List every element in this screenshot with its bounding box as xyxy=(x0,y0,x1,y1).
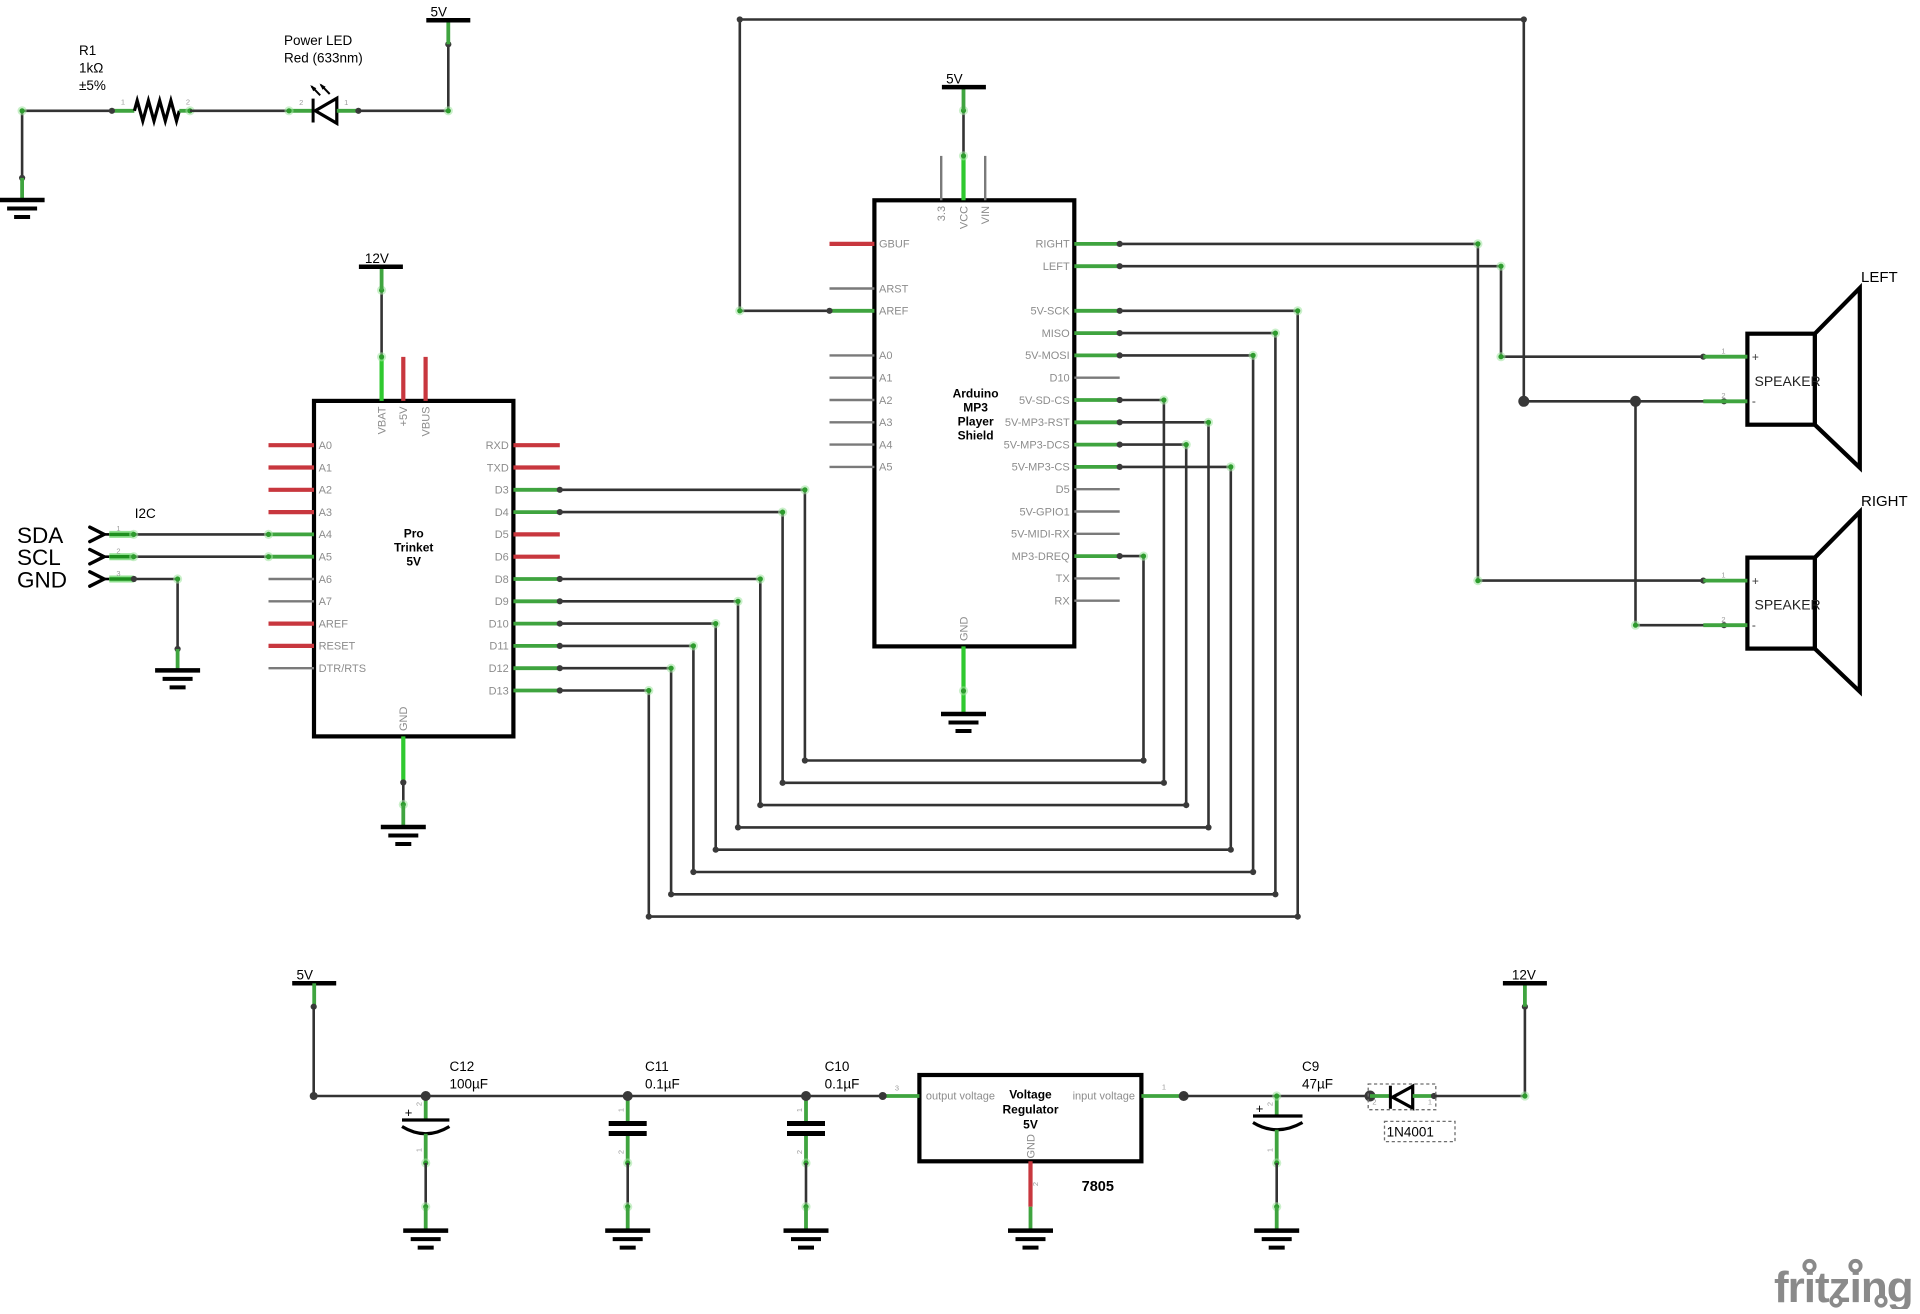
svg-text:1: 1 xyxy=(1162,1083,1166,1092)
svg-text:1N4001: 1N4001 xyxy=(1387,1124,1434,1139)
svg-text:7805: 7805 xyxy=(1082,1179,1114,1195)
svg-text:+: + xyxy=(1752,574,1759,588)
svg-text:D13: D13 xyxy=(489,685,509,697)
svg-text:LEFT: LEFT xyxy=(1043,261,1070,273)
svg-text:A3: A3 xyxy=(879,417,892,429)
svg-text:TXD: TXD xyxy=(487,462,509,474)
svg-text:1: 1 xyxy=(116,524,120,533)
svg-text:D10: D10 xyxy=(1050,373,1070,385)
svg-text:GBUF: GBUF xyxy=(879,239,910,251)
svg-text:MISO: MISO xyxy=(1042,328,1071,340)
svg-text:1: 1 xyxy=(415,1148,424,1152)
svg-text:A7: A7 xyxy=(319,596,332,608)
svg-text:D4: D4 xyxy=(495,507,509,519)
svg-text:C11: C11 xyxy=(645,1059,669,1074)
svg-text:A5: A5 xyxy=(879,462,892,474)
svg-text:A4: A4 xyxy=(319,529,332,541)
svg-text:-: - xyxy=(1752,394,1756,408)
svg-text:VIN: VIN xyxy=(980,206,992,224)
svg-text:RIGHT: RIGHT xyxy=(1035,239,1070,251)
svg-text:1: 1 xyxy=(1721,570,1725,579)
svg-text:AREF: AREF xyxy=(879,306,909,318)
svg-text:3: 3 xyxy=(116,569,120,578)
svg-text:GND: GND xyxy=(1025,1134,1037,1159)
svg-text:1: 1 xyxy=(1428,1098,1432,1107)
svg-text:SCL: SCL xyxy=(17,545,61,570)
svg-text:SPEAKER: SPEAKER xyxy=(1755,597,1821,613)
svg-text:A4: A4 xyxy=(879,439,892,451)
svg-text:+: + xyxy=(1256,1101,1264,1116)
svg-text:2: 2 xyxy=(1721,615,1725,624)
svg-text:Shield: Shield xyxy=(958,429,994,443)
svg-text:Regulator: Regulator xyxy=(1002,1103,1058,1117)
svg-text:D6: D6 xyxy=(495,552,509,564)
svg-text:VBUS: VBUS xyxy=(420,407,432,437)
svg-text:5V: 5V xyxy=(431,5,448,20)
svg-text:A2: A2 xyxy=(319,485,332,497)
svg-text:12V: 12V xyxy=(365,251,389,266)
svg-text:1: 1 xyxy=(344,98,348,107)
svg-text:+: + xyxy=(405,1105,413,1120)
svg-text:5V-MP3-DCS: 5V-MP3-DCS xyxy=(1004,439,1070,451)
svg-text:2: 2 xyxy=(1266,1102,1275,1106)
svg-text:Red (633nm): Red (633nm) xyxy=(284,50,363,65)
svg-text:Player: Player xyxy=(958,415,994,429)
svg-text:A5: A5 xyxy=(319,552,332,564)
svg-text:5V-SCK: 5V-SCK xyxy=(1031,306,1071,318)
svg-text:A1: A1 xyxy=(879,373,892,385)
svg-text:47µF: 47µF xyxy=(1302,1076,1333,1091)
svg-text:2: 2 xyxy=(1031,1182,1040,1186)
svg-text:0.1µF: 0.1µF xyxy=(645,1076,680,1091)
svg-text:2: 2 xyxy=(415,1102,424,1106)
svg-text:GND: GND xyxy=(17,567,67,592)
svg-text:1: 1 xyxy=(617,1108,626,1112)
svg-text:D9: D9 xyxy=(495,596,509,608)
svg-text:5V: 5V xyxy=(1023,1118,1038,1132)
svg-text:TX: TX xyxy=(1056,573,1071,585)
svg-text:D11: D11 xyxy=(489,641,508,653)
svg-text:5V-SD-CS: 5V-SD-CS xyxy=(1019,395,1070,407)
svg-text:2: 2 xyxy=(617,1150,626,1154)
svg-text:VCC: VCC xyxy=(958,206,970,229)
svg-text:A6: A6 xyxy=(319,574,332,586)
svg-text:C12: C12 xyxy=(450,1059,475,1074)
svg-text:0.1µF: 0.1µF xyxy=(825,1076,860,1091)
svg-text:D3: D3 xyxy=(495,485,509,497)
svg-text:1: 1 xyxy=(1266,1148,1275,1152)
svg-text:D5: D5 xyxy=(1056,484,1070,496)
svg-text:2: 2 xyxy=(1721,391,1725,400)
svg-text:D12: D12 xyxy=(489,663,509,675)
svg-text:Pro: Pro xyxy=(404,527,424,541)
svg-text:Trinket: Trinket xyxy=(394,541,433,555)
svg-text:+5V: +5V xyxy=(398,406,410,427)
svg-text:D10: D10 xyxy=(489,618,509,630)
svg-text:1: 1 xyxy=(795,1108,804,1112)
svg-text:2: 2 xyxy=(299,98,303,107)
svg-text:output voltage: output voltage xyxy=(926,1091,995,1103)
svg-text:5V-MP3-CS: 5V-MP3-CS xyxy=(1012,462,1070,474)
svg-text:GND: GND xyxy=(958,617,970,642)
svg-text:-: - xyxy=(1752,618,1756,632)
svg-text:D5: D5 xyxy=(495,529,509,541)
svg-text:D8: D8 xyxy=(495,574,509,586)
svg-text:+: + xyxy=(1752,350,1759,364)
svg-text:5V-MIDI-RX: 5V-MIDI-RX xyxy=(1011,529,1070,541)
svg-text:SPEAKER: SPEAKER xyxy=(1755,373,1821,389)
svg-text:2: 2 xyxy=(116,547,120,556)
svg-text:C10: C10 xyxy=(825,1059,850,1074)
svg-text:VBAT: VBAT xyxy=(376,406,388,434)
svg-text:fritzing: fritzing xyxy=(1774,1263,1913,1309)
svg-text:5V: 5V xyxy=(946,72,963,87)
svg-text:3: 3 xyxy=(895,1084,899,1093)
svg-text:2: 2 xyxy=(795,1150,804,1154)
svg-text:100µF: 100µF xyxy=(450,1076,489,1091)
svg-text:Power LED: Power LED xyxy=(284,33,353,48)
svg-text:A0: A0 xyxy=(879,350,892,362)
svg-text:ARST: ARST xyxy=(879,283,909,295)
svg-text:3.3: 3.3 xyxy=(936,206,948,221)
svg-text:A1: A1 xyxy=(319,462,332,474)
svg-text:A2: A2 xyxy=(879,395,892,407)
svg-text:I2C: I2C xyxy=(135,506,156,521)
svg-text:5V-MOSI: 5V-MOSI xyxy=(1025,350,1070,362)
svg-text:input voltage: input voltage xyxy=(1073,1091,1135,1103)
svg-text:5V: 5V xyxy=(406,555,421,569)
svg-text:2: 2 xyxy=(1372,1098,1376,1107)
svg-text:2: 2 xyxy=(186,98,190,107)
svg-text:LEFT: LEFT xyxy=(1861,269,1898,286)
svg-text:RX: RX xyxy=(1054,596,1070,608)
svg-text:5V: 5V xyxy=(296,968,313,983)
svg-text:12V: 12V xyxy=(1512,968,1536,983)
svg-text:1: 1 xyxy=(1721,346,1725,355)
svg-text:SDA: SDA xyxy=(17,523,63,548)
svg-text:±5%: ±5% xyxy=(79,78,106,93)
svg-text:DTR/RTS: DTR/RTS xyxy=(319,663,366,675)
svg-text:A0: A0 xyxy=(319,440,332,452)
svg-text:C9: C9 xyxy=(1302,1059,1319,1074)
svg-text:A3: A3 xyxy=(319,507,332,519)
svg-text:5V-GPIO1: 5V-GPIO1 xyxy=(1020,506,1070,518)
svg-text:GND: GND xyxy=(398,707,410,732)
svg-text:MP3: MP3 xyxy=(963,401,988,415)
svg-text:MP3-DREQ: MP3-DREQ xyxy=(1012,551,1071,563)
svg-text:AREF: AREF xyxy=(319,618,349,630)
svg-text:RIGHT: RIGHT xyxy=(1861,493,1908,510)
svg-text:Arduino: Arduino xyxy=(953,387,999,401)
svg-text:RXD: RXD xyxy=(486,440,509,452)
svg-text:5V-MP3-RST: 5V-MP3-RST xyxy=(1005,417,1070,429)
svg-text:RESET: RESET xyxy=(319,641,356,653)
svg-text:R1: R1 xyxy=(79,43,96,58)
svg-text:1: 1 xyxy=(121,98,125,107)
svg-text:Voltage: Voltage xyxy=(1009,1088,1052,1102)
svg-text:1kΩ: 1kΩ xyxy=(79,60,103,75)
